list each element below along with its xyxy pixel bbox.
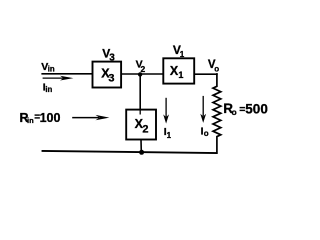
box X2 — [126, 110, 156, 140]
arrow I0 (downward) — [200, 96, 206, 123]
label V0 — [208, 59, 219, 73]
label R0 = 500 — [223, 101, 268, 117]
arrow I1 (downward) — [163, 98, 169, 124]
node: bottom junction dot under X2 — [139, 150, 144, 155]
wire: bottom return rail — [43, 151, 217, 153]
svg-text:in: in — [27, 116, 34, 125]
svg-text:3: 3 — [109, 53, 115, 64]
label Rin = 100 — [20, 111, 61, 125]
label X2 — [135, 117, 149, 136]
wire: X3 to X1 through node V2 — [121, 73, 163, 75]
label I0 — [201, 125, 209, 138]
svg-text:3: 3 — [108, 72, 114, 84]
wire: input lead from Vin to X3 — [42, 73, 92, 75]
svg-text:2: 2 — [142, 123, 148, 135]
svg-text:in: in — [45, 85, 52, 94]
svg-text:in: in — [48, 64, 55, 73]
wire: node V2 down to X2 — [139, 75, 141, 114]
arrow Iin — [43, 76, 74, 81]
svg-text:1: 1 — [167, 131, 172, 140]
wire: X2 bottom down to bottom rail — [140, 140, 142, 153]
arrow Rin (pointing right) — [72, 115, 109, 120]
svg-text:500: 500 — [245, 102, 268, 117]
svg-text:1: 1 — [180, 50, 185, 59]
label X3 — [101, 66, 114, 84]
label I1 — [164, 126, 172, 140]
svg-text:100: 100 — [40, 111, 61, 125]
label V2 — [136, 59, 146, 74]
svg-text:1: 1 — [178, 70, 183, 80]
resistor R0 zigzag with leads — [213, 74, 221, 153]
label Vin — [41, 61, 55, 73]
svg-text:o: o — [232, 107, 237, 117]
wire stub into X2 top — [139, 110, 141, 115]
label Iin — [43, 81, 53, 94]
svg-text:2: 2 — [141, 64, 146, 74]
box X3 — [93, 62, 122, 88]
box X1 — [163, 58, 194, 83]
svg-text:o: o — [214, 64, 219, 73]
label V3 — [102, 46, 115, 63]
label X1 — [170, 64, 184, 80]
label V1 — [173, 43, 185, 59]
svg-text:o: o — [204, 129, 209, 138]
wire: X1 to node V0 — [194, 73, 217, 75]
node V2 junction dot — [138, 72, 142, 76]
